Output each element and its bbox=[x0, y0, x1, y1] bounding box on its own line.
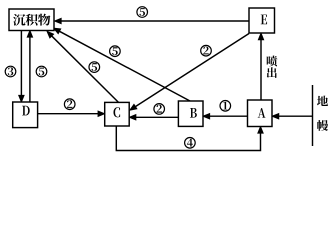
box C bbox=[105, 102, 130, 126]
label: circled 4 on C-A path bbox=[185, 138, 196, 149]
box A bbox=[248, 100, 273, 127]
wire: arrow A to B (circled 1) bbox=[204, 114, 248, 119]
label: sediment text bbox=[13, 14, 50, 26]
label: circled 5 top (E to sediment) bbox=[137, 7, 148, 18]
label: circled 2 on E-C diagonal bbox=[201, 45, 212, 56]
wire: vertical arrow D up to sediment bbox=[28, 31, 33, 102]
wire: path C down-right-up to A (circled 4, remelting) bbox=[116, 126, 262, 151]
wire: diagonal arrow E to C (circled 2) bbox=[130, 34, 249, 110]
label E bbox=[261, 15, 267, 25]
wire: arrow mantle to A bbox=[273, 114, 313, 119]
wire: diagonal arrow B to sediment bbox=[54, 29, 190, 102]
wire: vertical arrow sediment down to D (circled 3) bbox=[19, 31, 24, 102]
box B bbox=[178, 101, 203, 126]
label: eruption (pen-chu) vertical text next to A-E arrow bbox=[267, 56, 278, 78]
wire: vertical arrow A up to E (eruption) bbox=[259, 34, 264, 100]
label: circled 5 on B-sediment diagonal bbox=[110, 46, 121, 57]
wire: arrow D to C (circled 2) bbox=[38, 111, 104, 116]
box E bbox=[249, 8, 275, 33]
label: circled 3 on sediment-D vertical bbox=[5, 66, 16, 77]
label: circled 1 on A-B arrow bbox=[220, 101, 231, 112]
label: circled 2 on B-C arrow bbox=[154, 104, 165, 115]
wire: arrow E to sediment (weathering, circled 5 on top) bbox=[55, 19, 249, 24]
label C bbox=[113, 107, 120, 117]
box: sediment (chen-ji-wu) bbox=[9, 9, 54, 31]
mantle boundary vertical line bbox=[312, 85, 314, 146]
label A bbox=[258, 108, 266, 118]
label D bbox=[22, 106, 30, 116]
wire: diagonal arrow C to sediment bbox=[48, 32, 119, 103]
label: circled 5 on C-sediment diagonal bbox=[89, 62, 100, 73]
wire: arrow B to C (circled 2) bbox=[130, 115, 179, 120]
box D bbox=[13, 102, 38, 128]
label: circled 2 on D-C arrow bbox=[64, 99, 75, 110]
label: mantle (di-man) text bbox=[317, 96, 328, 131]
label B bbox=[190, 108, 197, 118]
label: circled 5 on D-sediment vertical bbox=[36, 66, 47, 77]
